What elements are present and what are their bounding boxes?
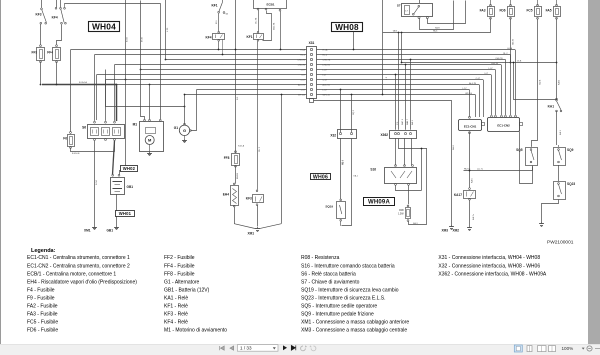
svg-text:XM2: XM2 [452,229,459,233]
svg-text:FF8: FF8 [224,156,230,160]
svg-text:SQ19: SQ19 [325,205,333,209]
svg-text:G: G [183,128,186,133]
svg-text:B.054.A: B.054.A [79,81,87,84]
svg-text:KF3: KF3 [246,197,252,201]
svg-text:BA.1: BA.1 [411,119,414,125]
svg-text:CH6.7B: CH6.7B [495,58,503,60]
svg-text:L.30: L.30 [167,27,169,32]
svg-text:XM3: XM3 [441,229,448,233]
svg-text:LH6.7B: LH6.7B [491,63,499,65]
svg-text:CH.2: CH.2 [259,146,261,152]
svg-text:X362: X362 [381,133,389,137]
svg-text:RL.2: RL.2 [300,55,305,57]
svg-text:KA.5: KA.5 [471,177,474,183]
svg-text:FC5: FC5 [526,9,532,13]
svg-text:EC1-CN1: EC1-CN1 [464,124,477,128]
svg-text:S6: S6 [82,126,86,130]
svg-text:KA.1: KA.1 [559,129,562,135]
svg-text:KF1: KF1 [246,35,252,39]
svg-text:KA17: KA17 [454,193,462,197]
svg-text:KF4: KF4 [52,16,58,20]
svg-text:X31: X31 [309,41,315,45]
svg-text:16.B: 16.B [517,60,522,62]
svg-text:XM1: XM1 [84,229,91,233]
svg-text:H.LA: H.LA [323,49,328,52]
svg-text:I.07: I.07 [301,75,305,77]
svg-text:WF.1.B: WF.1.B [298,94,306,96]
svg-text:H.LA: H.LA [300,49,305,52]
svg-text:17: 17 [405,11,408,13]
svg-text:X32: X32 [330,134,336,138]
svg-text:FA.7xx: FA.7xx [464,167,471,170]
svg-text:FD6: FD6 [499,9,505,13]
svg-text:1.5W: 1.5W [398,213,404,215]
svg-text:L.07: L.07 [301,70,306,72]
svg-text:AL6.7B: AL6.7B [298,84,306,87]
svg-text:LH6.7B: LH6.7B [298,65,306,67]
svg-text:KF1: KF1 [211,4,217,8]
svg-text:L.57: L.57 [323,90,328,92]
svg-text:XM1: XM1 [247,232,254,236]
svg-text:WH08: WH08 [335,23,359,32]
svg-text:R08: R08 [399,210,404,212]
svg-text:RL.2: RL.2 [323,55,328,57]
svg-text:9A: 9A [226,13,229,16]
svg-text:S16: S16 [370,168,376,172]
svg-text:9A.6: 9A.6 [433,30,438,33]
svg-text:B04.B: B04.B [237,173,239,179]
svg-text:WF.1.B: WF.1.B [465,93,472,95]
svg-text:WH02: WH02 [123,166,136,171]
svg-text:S7: S7 [397,4,401,8]
svg-text:ECB1: ECB1 [266,3,274,7]
svg-text:9AB.7: 9AB.7 [406,118,409,125]
svg-text:SA.B: SA.B [435,26,440,29]
svg-text:M: M [148,138,152,143]
svg-text:N.05.A: N.05.A [238,144,245,147]
svg-text:H.LA: H.LA [507,47,512,50]
svg-text:xxx.7x: xxx.7x [477,168,484,170]
svg-text:SB.30: SB.30 [513,38,515,45]
svg-text:SQ.1: SQ.1 [342,159,344,165]
svg-text:M1: M1 [133,123,138,127]
svg-text:KF3: KF3 [36,12,42,16]
svg-text:AL6.7B: AL6.7B [469,82,476,85]
svg-text:EC1-CN2: EC1-CN2 [497,124,510,128]
svg-text:SQ.B: SQ.B [540,79,542,85]
svg-text:F6: F6 [63,137,67,141]
svg-text:SQ23: SQ23 [567,182,575,186]
svg-text:WH04: WH04 [92,22,116,32]
svg-text:M.1: M.1 [216,20,218,24]
svg-text:WH01: WH01 [119,211,132,216]
svg-text:WF.1.B: WF.1.B [323,94,331,96]
svg-text:G1: G1 [174,126,178,130]
svg-text:C.07: C.07 [323,80,328,82]
svg-text:C.07: C.07 [300,80,305,82]
svg-text:WH09A: WH09A [368,200,390,206]
svg-text:M.30: M.30 [142,36,144,42]
svg-text:B.054.B: B.054.B [72,153,80,155]
svg-text:N.04: N.04 [96,180,98,185]
svg-text:AL6.7B: AL6.7B [323,84,331,87]
svg-text:SQ9: SQ9 [567,148,574,152]
svg-text:9A.4: 9A.4 [452,145,455,150]
svg-text:KF4: KF4 [205,36,211,40]
svg-text:KA.B: KA.B [557,79,560,85]
svg-text:L.07: L.07 [323,70,328,72]
svg-text:KA.7x: KA.7x [472,213,475,220]
svg-text:KA1: KA1 [548,105,555,109]
svg-text:9A1.7B: 9A1.7B [273,22,276,30]
svg-text:CH6.7B: CH6.7B [297,60,305,62]
svg-text:L.5: L.5 [386,76,388,80]
svg-text:GB1: GB1 [127,185,134,189]
svg-text:TA.B: TA.B [393,30,398,33]
svg-text:FA5: FA5 [546,9,552,13]
svg-text:LH6.7B: LH6.7B [323,65,331,67]
svg-text:OL.7B: OL.7B [256,17,258,24]
svg-text:L.57: L.57 [301,90,306,92]
svg-text:GB1: GB1 [106,229,113,233]
svg-text:CH6.7B: CH6.7B [323,60,331,62]
svg-text:WH06: WH06 [313,174,328,180]
svg-text:KA.1: KA.1 [354,175,359,178]
svg-text:EH4: EH4 [223,193,229,197]
svg-text:N.1: N.1 [237,96,239,100]
svg-text:I.07: I.07 [323,75,327,77]
svg-text:FA3: FA3 [480,9,486,13]
svg-text:SQ.2: SQ.2 [353,109,355,115]
svg-text:9AC.1: 9AC.1 [401,118,404,125]
svg-text:B.04: B.04 [127,37,129,42]
